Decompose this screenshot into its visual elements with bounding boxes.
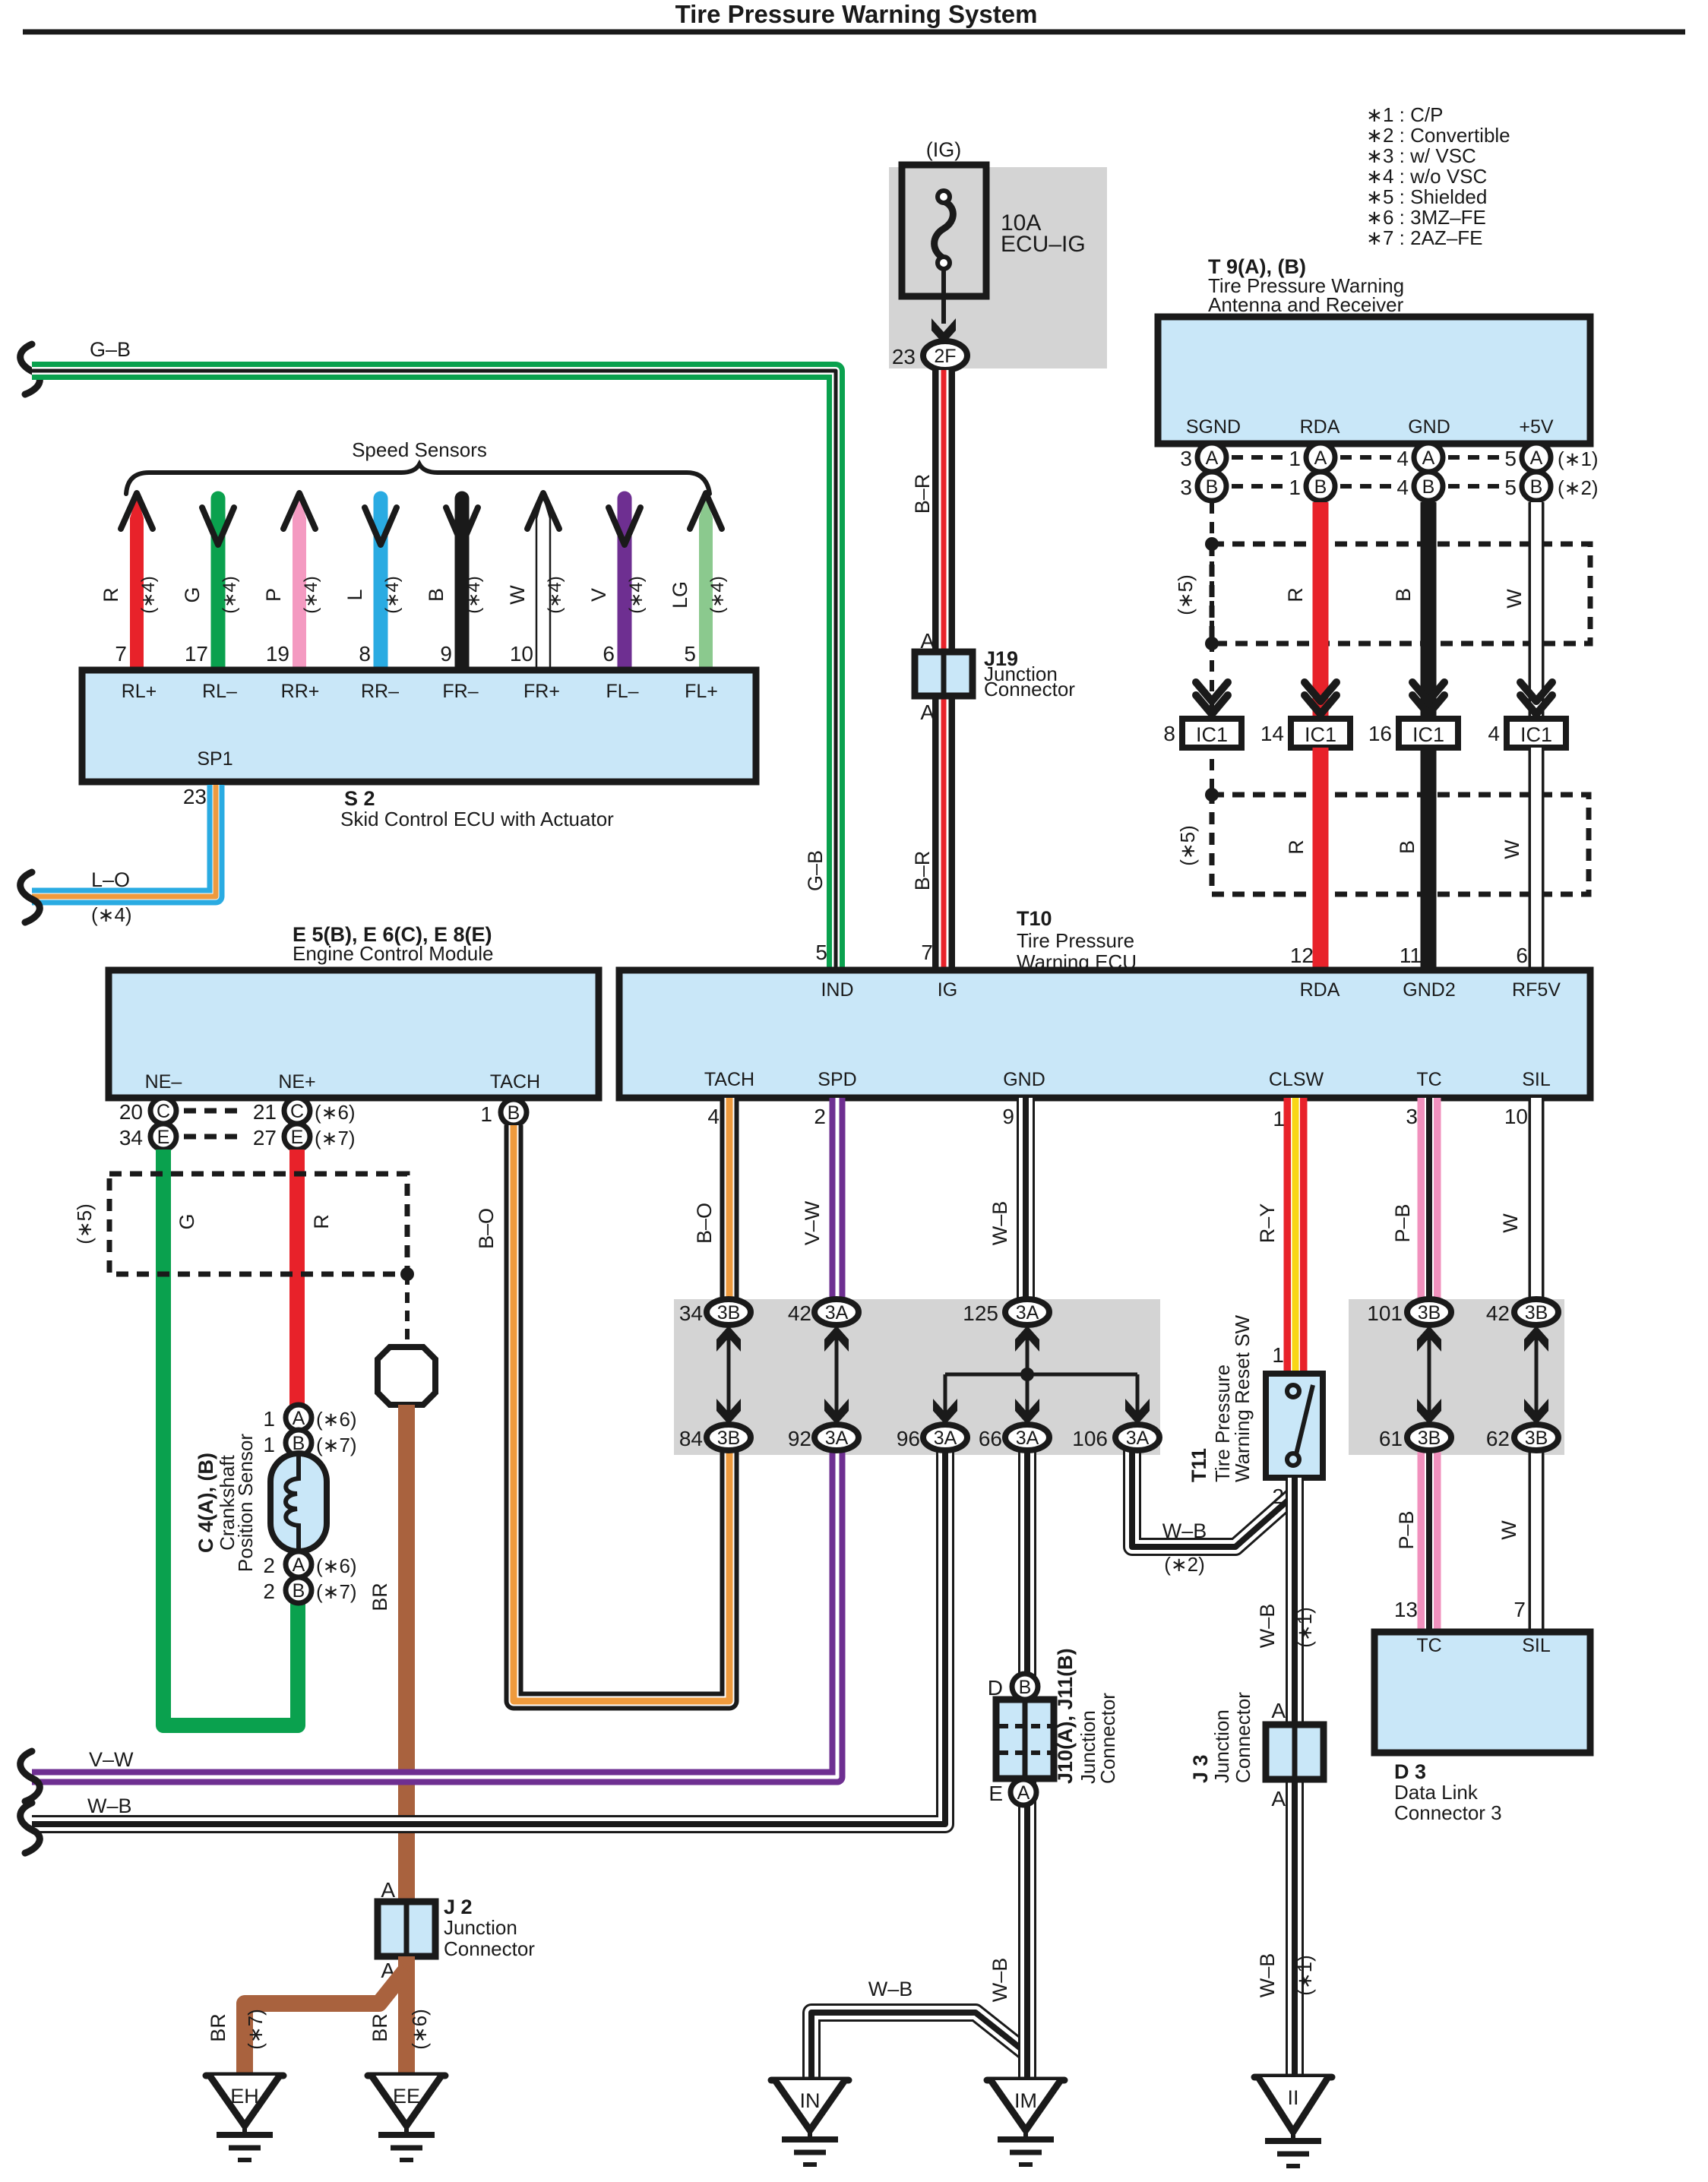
wire R-Y: T10 CLSW to T11	[1284, 1098, 1308, 1375]
svg-text:125: 125	[963, 1301, 998, 1325]
junction connector J2	[378, 1896, 535, 1960]
connector IC1 pin 8	[1163, 719, 1241, 748]
svg-text:(∗1): (∗1)	[1293, 1607, 1316, 1648]
wire B-R: J19 to T10 pin IG	[932, 696, 955, 970]
svg-text:C: C	[290, 1101, 304, 1122]
ECM terminal labels	[145, 1071, 540, 1093]
svg-text:Antenna and Receiver: Antenna and Receiver	[1208, 293, 1404, 316]
wire B-R: fuse 2F to J19	[932, 370, 955, 652]
wire L-O: S2 SP1 to left edge	[32, 785, 216, 897]
svg-text:3A: 3A	[825, 1302, 849, 1323]
wire W-B: junction 96(3A) to left edge	[32, 1437, 945, 1824]
svg-text:1 : C/P: 1 : C/P	[1383, 103, 1443, 126]
connector node 2F	[923, 341, 967, 370]
svg-text:3B: 3B	[717, 1428, 741, 1449]
svg-text:101: 101	[1367, 1301, 1403, 1325]
svg-text:(∗4): (∗4)	[463, 576, 484, 613]
svg-text:A: A	[1422, 447, 1435, 469]
svg-text:16: 16	[1368, 722, 1392, 745]
wire R: IC1 to T10 RDA	[1313, 748, 1329, 970]
svg-text:TC: TC	[1416, 1069, 1441, 1090]
svg-text:Data Link: Data Link	[1394, 1781, 1479, 1804]
svg-text:1: 1	[480, 1102, 492, 1126]
C4 crankshaft position sensor body with coil	[270, 1453, 327, 1551]
brace over speed sensors	[126, 464, 710, 494]
junction pair 42(3B) to 62(3B) at x=2022	[1524, 1326, 1548, 1427]
svg-text:4: 4	[707, 1105, 720, 1128]
svg-text:(∗6): (∗6)	[316, 1408, 357, 1431]
svg-text:RL+: RL+	[122, 681, 157, 702]
svg-text:R: R	[310, 1214, 333, 1229]
connector IC1 pin 16	[1368, 719, 1458, 748]
svg-text:(∗2): (∗2)	[1164, 1553, 1205, 1576]
svg-text:(∗7): (∗7)	[316, 1434, 357, 1456]
svg-text:R: R	[1284, 587, 1307, 602]
svg-text:3B: 3B	[1525, 1302, 1548, 1323]
svg-text:Junction: Junction	[444, 1916, 517, 1939]
svg-text:3: 3	[1406, 1105, 1418, 1128]
svg-text:23: 23	[183, 785, 207, 808]
C4 pin 1(A)(*6)	[263, 1405, 356, 1431]
svg-text:BR: BR	[368, 1583, 391, 1611]
svg-text:R: R	[100, 587, 122, 602]
connector IC1 pin 14	[1260, 719, 1350, 748]
svg-text:IG: IG	[938, 979, 957, 1001]
svg-text:106: 106	[1072, 1427, 1108, 1450]
svg-text:A: A	[920, 700, 935, 724]
wire drain dashed to octagon	[405, 1274, 410, 1346]
svg-text:10: 10	[1504, 1105, 1528, 1128]
svg-text:NE–: NE–	[145, 1071, 182, 1093]
svg-text:D 3: D 3	[1394, 1760, 1426, 1783]
svg-text:A: A	[1271, 1699, 1286, 1722]
speed sensor wire L pin 8 (down)	[343, 498, 403, 670]
svg-text:Speed Sensors: Speed Sensors	[352, 438, 487, 461]
svg-text:B: B	[1396, 840, 1419, 854]
wire W-B branch to IN ground	[811, 2013, 1027, 2080]
svg-text:W–B: W–B	[1162, 1519, 1207, 1542]
speed sensor wire V pin 6 (down)	[587, 498, 647, 670]
svg-text:RF5V: RF5V	[1512, 979, 1561, 1001]
svg-text:7: 7	[921, 941, 933, 964]
wire SGND shielding drain (dashed)	[1210, 502, 1214, 795]
svg-text:RR–: RR–	[361, 681, 399, 702]
svg-text:G: G	[181, 587, 204, 602]
svg-text:V–W: V–W	[801, 1200, 824, 1245]
svg-text:5 : Shielded: 5 : Shielded	[1383, 185, 1487, 208]
junction node 92(3A)	[788, 1425, 859, 1450]
svg-text:IM: IM	[1014, 2089, 1037, 2112]
svg-text:27: 27	[253, 1126, 277, 1150]
svg-text:W: W	[1501, 840, 1523, 859]
C4 pin 1(B)(*7)	[263, 1430, 356, 1456]
svg-text:IND: IND	[821, 979, 853, 1001]
break squiggle V-W at left edge	[21, 1751, 40, 1801]
svg-text:2: 2	[263, 1580, 275, 1603]
component Engine Control Module box	[109, 970, 599, 1098]
wire W: IC1 to T10 RF5V	[1529, 748, 1545, 970]
T9 pin 1(A)/(B) column at x=1738	[1289, 443, 1335, 501]
svg-text:IC1: IC1	[1412, 723, 1444, 746]
J10 pin B	[1012, 1674, 1038, 1700]
component T9 title	[1208, 255, 1404, 316]
svg-text:LG: LG	[669, 581, 691, 609]
svg-text:P: P	[262, 588, 285, 602]
svg-text:1: 1	[1289, 476, 1301, 499]
svg-text:IN: IN	[800, 2089, 821, 2112]
svg-text:5: 5	[1504, 476, 1517, 499]
wire fuse to connector 2F	[941, 267, 946, 324]
svg-text:3B: 3B	[1418, 1302, 1441, 1323]
svg-text:B: B	[1314, 476, 1327, 498]
svg-text:B–R: B–R	[911, 474, 934, 514]
svg-text:SPD: SPD	[818, 1069, 856, 1090]
svg-text:J 3: J 3	[1189, 1754, 1212, 1783]
svg-text:W: W	[1498, 1520, 1520, 1540]
svg-text:L–O: L–O	[91, 868, 130, 891]
svg-text:BR: BR	[368, 2013, 391, 2042]
arrow into IC1 at x=1738	[1305, 682, 1336, 701]
svg-text:∗: ∗	[1366, 103, 1383, 126]
svg-text:3: 3	[1180, 447, 1192, 470]
svg-text:2 : Convertible: 2 : Convertible	[1383, 124, 1510, 147]
component T9 Tire Pressure Warning Antenna and Receiver box	[1158, 317, 1590, 444]
label W-B (*1) upper	[1256, 1604, 1316, 1649]
svg-text:9: 9	[1002, 1105, 1014, 1128]
svg-text:A: A	[293, 1554, 305, 1576]
svg-text:RDA: RDA	[1300, 979, 1340, 1001]
svg-text:GND2: GND2	[1403, 979, 1455, 1001]
wire P-B: junction 61(3B) to D3 TC	[1418, 1437, 1441, 1632]
svg-text:4: 4	[1396, 447, 1409, 470]
break squiggle W-B at left edge	[21, 1803, 40, 1853]
svg-text:23: 23	[892, 345, 916, 368]
svg-text:Tire Pressure Warning System: Tire Pressure Warning System	[675, 0, 1038, 28]
wire W: T10 SIL to junction 42(3B)	[1529, 1098, 1545, 1301]
wire G: ECM NE- 34(E) loop to crank sensor	[163, 1150, 298, 1725]
ground IN	[771, 2077, 849, 2084]
speed sensor wire R pin 7 (up)	[100, 493, 159, 670]
wire R: ECM NE+ 27(E) to crank sensor pin 1	[289, 1150, 305, 1407]
wire BR branch to EH ground	[245, 1969, 406, 2076]
svg-text:1: 1	[1289, 447, 1301, 470]
svg-text:SGND: SGND	[1186, 416, 1241, 438]
svg-text:2F: 2F	[934, 346, 956, 367]
svg-text:T10: T10	[1017, 907, 1052, 930]
svg-text:8: 8	[359, 642, 371, 666]
svg-text:IC1: IC1	[1520, 723, 1552, 746]
label W-B (*1) lower	[1256, 1953, 1316, 1998]
junction dot lower shield	[1205, 788, 1219, 802]
svg-text:V: V	[587, 588, 610, 602]
svg-text:∗: ∗	[1366, 226, 1383, 249]
svg-text:Connector: Connector	[984, 678, 1075, 700]
T9 pin 3(A)/(B) column at x=1595	[1180, 443, 1226, 501]
svg-text:W: W	[506, 585, 529, 605]
junction node 101(3B)	[1367, 1299, 1451, 1325]
svg-text:RR+: RR+	[281, 681, 320, 702]
D3 terminal labels	[1416, 1635, 1551, 1656]
component S2 Skid Control ECU box	[82, 670, 756, 782]
component T11 Tire Pressure Warning Reset SW	[1266, 1374, 1323, 1478]
svg-text:3B: 3B	[1525, 1428, 1548, 1449]
svg-text:+5V: +5V	[1519, 416, 1554, 438]
svg-text:8: 8	[1163, 722, 1175, 745]
svg-text:V–W: V–W	[89, 1748, 134, 1771]
svg-text:6 : 3MZ–FE: 6 : 3MZ–FE	[1383, 206, 1486, 229]
svg-text:2: 2	[1272, 1485, 1284, 1508]
svg-text:∗: ∗	[1366, 165, 1383, 188]
svg-text:J10(A), J11(B): J10(A), J11(B)	[1054, 1648, 1077, 1784]
svg-text:W–B: W–B	[87, 1795, 132, 1817]
junction tree 125(3A) to 96/66/106	[933, 1326, 1150, 1425]
svg-text:G–B: G–B	[90, 338, 131, 361]
svg-text:G: G	[176, 1213, 198, 1229]
svg-text:A: A	[1314, 447, 1327, 469]
svg-text:4: 4	[1488, 722, 1500, 745]
fuse F1 10A ECU-IG	[902, 165, 986, 296]
T9 terminal labels	[1186, 416, 1554, 438]
junction node 42(3A)	[788, 1299, 859, 1325]
svg-text:20: 20	[119, 1100, 143, 1124]
svg-text:EH: EH	[230, 2085, 259, 2108]
wire W-B (*2): junction 106(3A) to T11 pin 2	[1132, 1437, 1295, 1547]
svg-text:W–B: W–B	[868, 1978, 913, 2000]
svg-text:4: 4	[1396, 476, 1409, 499]
svg-text:∗: ∗	[1366, 124, 1383, 147]
ECM pin 27(E) NE+	[253, 1124, 356, 1150]
svg-text:FR–: FR–	[442, 681, 478, 702]
svg-text:Connector: Connector	[444, 1937, 535, 1960]
ground II	[1254, 2074, 1332, 2081]
svg-text:TC: TC	[1416, 1635, 1441, 1656]
svg-text:(∗7): (∗7)	[244, 2009, 267, 2050]
svg-text:A: A	[1017, 1782, 1030, 1804]
junction pair 34(3B/3A) to 84 at x=959	[716, 1326, 741, 1427]
svg-text:(∗7): (∗7)	[315, 1127, 356, 1150]
svg-text:GND: GND	[1003, 1069, 1045, 1090]
svg-text:B–R: B–R	[911, 851, 934, 891]
svg-text:6: 6	[603, 642, 615, 666]
wire W: junction 62(3B) to D3 SIL	[1529, 1437, 1545, 1632]
wire BR: J2 to EE ground	[398, 1956, 415, 2076]
svg-text:(∗4): (∗4)	[707, 576, 728, 613]
svg-text:(∗6): (∗6)	[408, 2009, 431, 2050]
speed sensor wire G pin 17 (down)	[181, 498, 240, 670]
svg-text:B: B	[1530, 476, 1543, 498]
svg-text:B: B	[1019, 1677, 1032, 1698]
svg-text:RDA: RDA	[1300, 416, 1340, 438]
svg-text:92: 92	[788, 1427, 811, 1450]
svg-text:(∗4): (∗4)	[220, 576, 240, 613]
svg-text:1: 1	[263, 1433, 275, 1456]
svg-text:W: W	[1499, 1213, 1522, 1233]
speed sensor wire W pin 10 (up)	[506, 493, 565, 670]
svg-text:B: B	[1206, 476, 1219, 498]
svg-text:3A: 3A	[934, 1428, 957, 1449]
svg-text:A: A	[1530, 447, 1543, 469]
svg-text:FL+: FL+	[685, 681, 718, 702]
svg-text:34: 34	[119, 1126, 143, 1150]
ground EH	[206, 2073, 283, 2079]
arrow into IC1 at x=2022	[1520, 682, 1552, 701]
wire W-B: T10 GND to junction 125(3A)	[1017, 1098, 1035, 1301]
connector IC1 pin 4	[1488, 719, 1566, 748]
svg-text:(∗7): (∗7)	[316, 1580, 357, 1603]
svg-text:W–B: W–B	[988, 1201, 1011, 1246]
svg-text:(∗5): (∗5)	[1176, 825, 1199, 866]
svg-text:B–O: B–O	[693, 1203, 716, 1244]
arrow into IC1 at x=1880	[1412, 682, 1444, 701]
junction node 34(3B)	[679, 1299, 751, 1325]
D3 caption	[1394, 1760, 1502, 1824]
svg-text:42: 42	[1486, 1301, 1510, 1325]
svg-text:9: 9	[440, 642, 452, 666]
wire B: IC1 to T10 GND2	[1421, 748, 1437, 970]
svg-text:(∗6): (∗6)	[316, 1554, 357, 1577]
svg-text:P–B: P–B	[1391, 1203, 1414, 1242]
junction block band right	[1349, 1299, 1564, 1455]
svg-text:E: E	[291, 1127, 304, 1148]
svg-text:3B: 3B	[717, 1302, 741, 1323]
svg-text:1: 1	[263, 1407, 275, 1431]
svg-text:5: 5	[1504, 447, 1517, 470]
ground IM	[987, 2077, 1064, 2084]
svg-text:A: A	[1271, 1787, 1286, 1810]
svg-text:3: 3	[1180, 476, 1192, 499]
T9 pin 5(A)/(B) column at x=2022	[1504, 443, 1551, 501]
T10 terminal labels bottom	[704, 1069, 1551, 1090]
svg-text:NE+: NE+	[278, 1071, 315, 1093]
junction connector J19	[915, 647, 1075, 700]
octagon shield termination	[378, 1347, 435, 1405]
svg-text:Engine Control Module: Engine Control Module	[293, 942, 494, 965]
wire B-O: junction 34(3B) to T10 TACH	[720, 1098, 739, 1301]
svg-text:RL–: RL–	[202, 681, 237, 702]
junction node 61(3B)	[1379, 1425, 1451, 1450]
component T10 title	[1017, 907, 1137, 973]
svg-text:(∗2): (∗2)	[1558, 476, 1599, 499]
wire G-B: left edge to T10 pin IND	[32, 371, 836, 970]
ECM pin 34(E) NE-	[119, 1124, 176, 1150]
svg-text:Junction: Junction	[1210, 1709, 1233, 1783]
svg-text:21: 21	[253, 1100, 277, 1124]
svg-text:SIL: SIL	[1522, 1635, 1551, 1656]
svg-text:96: 96	[897, 1427, 920, 1450]
shield box (*5) upper	[1212, 544, 1590, 644]
svg-text:TACH: TACH	[704, 1069, 754, 1090]
svg-text:14: 14	[1260, 722, 1284, 745]
svg-text:P–B: P–B	[1395, 1510, 1418, 1549]
junction connector J3	[1189, 1692, 1324, 1783]
speed sensor wire P pin 19 (up)	[262, 493, 321, 670]
svg-text:C: C	[157, 1101, 170, 1122]
wire W-B: junction 66(3A) to IM ground via J10/J11	[1018, 1437, 1036, 2077]
wire P-B: T10 TC to junction 101(3B)	[1418, 1098, 1441, 1301]
svg-text:CLSW: CLSW	[1269, 1069, 1324, 1090]
svg-text:B: B	[425, 588, 448, 602]
component T11 reset switch labels	[1188, 1314, 1254, 1482]
svg-text:SIL: SIL	[1522, 1069, 1551, 1090]
junction dot shield to drain	[400, 1267, 414, 1281]
svg-text:A: A	[1206, 447, 1219, 469]
junction node 62(3B)	[1486, 1425, 1558, 1450]
svg-text:B: B	[293, 1580, 305, 1602]
arrow into 2F	[931, 318, 956, 344]
svg-text:(∗4): (∗4)	[138, 576, 159, 613]
junction pair 42(3B/3A) to 92 at x=1101	[824, 1326, 849, 1427]
svg-text:(IG): (IG)	[926, 138, 962, 161]
junction node 106(3A)	[1072, 1425, 1159, 1450]
svg-text:(∗4): (∗4)	[91, 903, 132, 926]
svg-text:BR: BR	[207, 2013, 229, 2042]
svg-text:61: 61	[1379, 1427, 1403, 1450]
svg-text:13: 13	[1394, 1598, 1418, 1621]
junction dot on shield lower-left	[1205, 637, 1219, 650]
ground EE	[368, 2073, 445, 2079]
svg-text:(∗4): (∗4)	[301, 576, 321, 613]
arrow into IC1 at x=1595	[1196, 682, 1228, 701]
junction dot on shield upper-left	[1205, 537, 1219, 551]
junction node 66(3A)	[979, 1425, 1049, 1450]
svg-text:B: B	[508, 1102, 520, 1124]
wire B: T9 GND to IC1	[1421, 502, 1437, 717]
svg-text:(∗1): (∗1)	[1558, 447, 1599, 470]
component C4 crankshaft position sensor labels	[195, 1434, 257, 1572]
svg-text:W: W	[1503, 589, 1526, 609]
svg-text:Connector: Connector	[1232, 1692, 1254, 1783]
svg-text:2: 2	[814, 1105, 826, 1128]
wire V-W: junction 92(3A) to left edge	[32, 1437, 837, 1777]
speed sensor wire B pin 9 (down)	[425, 498, 484, 670]
note legend *1..*7	[1366, 103, 1510, 249]
svg-text:∗: ∗	[1366, 144, 1383, 167]
svg-text:FR+: FR+	[523, 681, 560, 702]
svg-text:Tire Pressure: Tire Pressure	[1017, 929, 1134, 952]
S2 caption	[340, 787, 614, 830]
svg-text:10: 10	[510, 642, 533, 666]
svg-text:(∗5): (∗5)	[1174, 574, 1197, 615]
svg-text:∗: ∗	[1366, 185, 1383, 208]
svg-text:3A: 3A	[1016, 1302, 1039, 1323]
svg-text:EE: EE	[393, 2085, 420, 2108]
junction node 96(3A)	[897, 1425, 967, 1450]
svg-text:3A: 3A	[1016, 1428, 1039, 1449]
ECM pin 20(C) NE-	[119, 1098, 176, 1124]
svg-text:Warning Reset SW: Warning Reset SW	[1231, 1314, 1254, 1482]
svg-text:B–O: B–O	[475, 1208, 498, 1249]
junction block band left	[674, 1299, 1160, 1455]
shield box (*5) lower	[1212, 795, 1589, 894]
T9 pin 4(A)/(B) column at x=1880	[1396, 443, 1443, 501]
wire R: T9 RDA to IC1	[1313, 502, 1329, 717]
svg-text:42: 42	[788, 1301, 811, 1325]
svg-text:4 : w/o VSC: 4 : w/o VSC	[1383, 165, 1487, 188]
label BR (*6)	[368, 2009, 431, 2050]
svg-text:7: 7	[1513, 1598, 1526, 1621]
svg-text:R: R	[1285, 840, 1308, 855]
svg-text:G–B: G–B	[804, 850, 827, 891]
svg-text:62: 62	[1486, 1427, 1510, 1450]
svg-text:66: 66	[979, 1427, 1002, 1450]
C4 pin 2(B)(*7)	[263, 1577, 356, 1603]
value label 10A ECU-IG	[1001, 210, 1086, 257]
svg-text:II: II	[1287, 2086, 1298, 2109]
svg-text:B: B	[1422, 476, 1435, 498]
component T10 Tire Pressure Warning ECU box	[619, 970, 1590, 1098]
svg-text:19: 19	[266, 642, 289, 666]
svg-text:R–Y: R–Y	[1256, 1203, 1279, 1244]
